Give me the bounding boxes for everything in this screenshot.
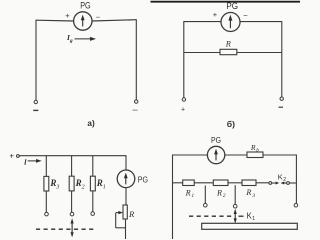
svg-text:R: R <box>225 39 231 48</box>
resistor R1 (circuit d) <box>183 180 195 186</box>
resistor Rb (circuit d) <box>247 152 263 158</box>
svg-text:K: K <box>278 173 283 182</box>
label K2 <box>278 173 286 184</box>
label R1 <box>96 178 106 191</box>
svg-text:2: 2 <box>82 185 85 191</box>
svg-text:+: + <box>65 11 69 20</box>
wire: d mid row segment 1 <box>173 182 183 184</box>
svg-text:3: 3 <box>251 193 255 199</box>
terminal b left <box>181 98 186 114</box>
svg-text:б): б) <box>227 119 235 129</box>
svg-text:PG: PG <box>138 175 149 185</box>
wire: d right vertical <box>295 155 297 204</box>
terminal c R2 <box>70 212 74 216</box>
resistor R (circuit b) <box>220 49 237 54</box>
wire: c top bus <box>20 155 127 157</box>
switch K2 (circuit d) <box>269 182 297 185</box>
svg-text:2: 2 <box>283 177 286 183</box>
svg-text:R: R <box>49 178 56 188</box>
wire: d mid row segment 4 <box>256 182 269 184</box>
wire: b top-left horizontal <box>184 21 221 23</box>
wire: a top-left horizontal <box>36 19 74 22</box>
svg-text:1: 1 <box>252 216 255 222</box>
resistor R1 branch (circuit c) <box>90 156 95 212</box>
svg-text:R: R <box>250 143 256 152</box>
wire: b resistor row left <box>184 52 220 54</box>
dashed tie line (circuit d) <box>189 215 232 217</box>
wire: d drop 1 <box>204 186 206 204</box>
svg-text:−: − <box>96 12 100 21</box>
wire: d top bus mid <box>225 154 247 156</box>
svg-text:PG: PG <box>80 1 91 11</box>
resistor R2 (circuit d) <box>213 180 228 186</box>
terminal d drop 2 <box>233 204 237 208</box>
label K1 <box>247 211 256 222</box>
label R2 (circuit d) <box>216 188 226 199</box>
resistor R2 branch (circuit c) <box>69 156 74 213</box>
svg-text:R: R <box>96 178 103 188</box>
svg-text:R: R <box>245 188 251 197</box>
svg-text:+: + <box>213 10 217 19</box>
wiper arrow K (circuit c) <box>71 218 74 237</box>
wire: c bottom drop <box>125 219 127 239</box>
label R3 (circuit d) <box>245 188 255 199</box>
current source PG (circuit a) <box>74 12 92 30</box>
dashed tie line (circuit c) <box>36 228 97 230</box>
wire: a left vertical <box>35 20 37 101</box>
svg-text:g: g <box>69 38 73 44</box>
svg-text:I: I <box>23 157 28 166</box>
svg-text:+: + <box>9 152 14 161</box>
wiper arrow K1 (circuit d) <box>234 209 237 224</box>
terminal c input <box>17 155 20 158</box>
terminal d drop 1 <box>204 203 208 207</box>
svg-text:R: R <box>185 188 191 197</box>
label R3 <box>49 178 59 191</box>
wire: a top-right horizontal <box>92 20 136 21</box>
svg-text:b: b <box>256 147 259 153</box>
rheostat R (circuit c) <box>116 205 128 228</box>
page rule line (top) <box>151 1 301 3</box>
terminal d right <box>294 203 298 207</box>
wire: d mid row segment 2 <box>194 182 213 184</box>
wire: b right vertical <box>281 21 283 97</box>
svg-text:а): а) <box>87 119 95 128</box>
label Ig with arrow (circuit a) <box>66 33 96 44</box>
wire: d top bus left <box>173 154 208 156</box>
wire: c PG branch top <box>125 155 127 170</box>
dash after arrow (circuit d) <box>239 215 244 217</box>
svg-text:3: 3 <box>55 185 59 191</box>
current source PG (circuit b) <box>221 13 240 32</box>
svg-text:+: + <box>181 106 185 113</box>
terminal a right <box>133 100 138 110</box>
current source PG (circuit d) <box>207 146 224 163</box>
wire: c PG to rheostat <box>125 188 127 205</box>
wire: d mid row segment 3 <box>228 182 242 184</box>
resistor R3 branch (circuit c) <box>44 156 49 213</box>
svg-text:R: R <box>128 209 135 219</box>
wire: d top bus right <box>263 154 297 156</box>
label R2 <box>75 178 85 191</box>
wire: d drop 2 <box>234 185 236 204</box>
terminal c R3 <box>45 212 49 216</box>
wire: d left vertical <box>172 155 174 240</box>
svg-text:1: 1 <box>191 193 194 199</box>
svg-text:1: 1 <box>103 185 106 191</box>
resistor R3 (circuit d) <box>242 180 256 186</box>
wire: b top-right horizontal <box>240 21 282 23</box>
terminal c R1 <box>91 212 95 216</box>
svg-text:R: R <box>216 188 222 197</box>
svg-text:PG: PG <box>226 1 238 11</box>
slide rheostat body (circuit d) <box>202 223 298 229</box>
wire: b resistor row right <box>237 52 282 54</box>
terminal a left <box>33 100 38 110</box>
svg-text:R: R <box>75 178 82 188</box>
label R1 (circuit d) <box>185 188 195 199</box>
label Rb <box>250 143 259 153</box>
wire: b left vertical <box>183 21 185 98</box>
label I with arrow (circuit c) <box>23 157 42 166</box>
wire: a right vertical <box>135 19 137 100</box>
svg-text:2: 2 <box>223 193 226 199</box>
current source PG (circuit c) <box>117 170 135 188</box>
terminal b right <box>279 97 284 107</box>
svg-text:−: − <box>243 11 248 20</box>
svg-text:PG: PG <box>211 136 221 145</box>
